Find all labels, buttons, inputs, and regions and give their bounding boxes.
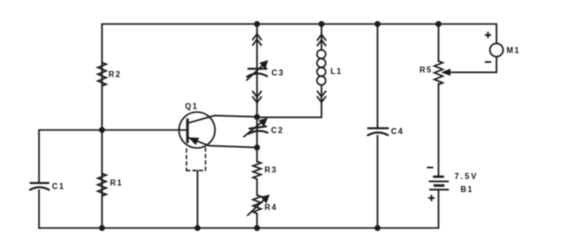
svg-text:C4: C4: [391, 127, 404, 136]
svg-text:C2: C2: [271, 126, 284, 135]
svg-text:Q1: Q1: [185, 102, 198, 111]
wire C2 to R3: [256, 148, 258, 163]
svg-text:7.5V: 7.5V: [455, 172, 479, 181]
node bottom C4: [375, 225, 381, 231]
node C2 top: [254, 114, 260, 120]
wire C1 lower: [38, 190, 40, 228]
wire base line: [39, 129, 188, 131]
wire C1 column: [38, 130, 40, 183]
svg-text:R5: R5: [420, 66, 433, 75]
wire R5 column top: [438, 24, 440, 62]
wire bottom rail: [39, 227, 439, 229]
svg-text:L1: L1: [331, 67, 343, 76]
node top L1: [319, 21, 325, 27]
potentiometer R5: [434, 61, 496, 85]
svg-text:R2: R2: [109, 70, 122, 79]
svg-text:R3: R3: [265, 166, 278, 175]
wire left column: [101, 24, 103, 228]
capacitor C2 (variable): [244, 119, 268, 137]
svg-text:C1: C1: [52, 182, 65, 191]
node bottom Q1 shield: [195, 225, 201, 231]
svg-text:R1: R1: [110, 179, 123, 188]
wire R4 to bottom rail: [256, 214, 258, 229]
node bottom R4: [254, 225, 260, 231]
wire C4 column bottom: [377, 136, 379, 229]
wire C4 column top: [377, 24, 379, 128]
svg-text:M1: M1: [507, 46, 521, 55]
node bottom R1: [99, 225, 105, 231]
node top R5: [436, 21, 442, 27]
capacitor C1: [30, 183, 49, 190]
resistor R1: [98, 174, 106, 197]
meter M1: [486, 24, 504, 72]
resistor R2: [98, 63, 106, 87]
transistor Q1: [179, 112, 257, 148]
capacitor C3 (variable): [247, 34, 268, 103]
resistor R4 (variable): [248, 195, 269, 215]
resistor R3: [253, 162, 261, 180]
wire C3 column: [256, 24, 258, 117]
wire C2 column: [256, 117, 258, 148]
node top C4: [375, 21, 381, 27]
wire Q1 shield to ground: [197, 171, 199, 229]
wire battery to bottom rail: [438, 190, 440, 228]
wire top rail: [102, 23, 497, 25]
node top C3: [254, 21, 260, 27]
node base junction: [99, 127, 105, 133]
transistor Q1 shield (dashed): [187, 148, 206, 171]
capacitor C4: [368, 128, 388, 135]
svg-text:R4: R4: [265, 203, 278, 212]
inductor L1: [317, 35, 326, 103]
wire L1 column top: [321, 24, 323, 50]
wire R3 to R4: [256, 180, 258, 196]
wire R5 to battery: [438, 84, 440, 177]
wire L1 column bottom: [257, 86, 322, 118]
node C2 bottom: [254, 145, 260, 151]
battery B1: [428, 168, 449, 201]
svg-text:B1: B1: [461, 185, 474, 194]
svg-text:C3: C3: [272, 69, 285, 78]
